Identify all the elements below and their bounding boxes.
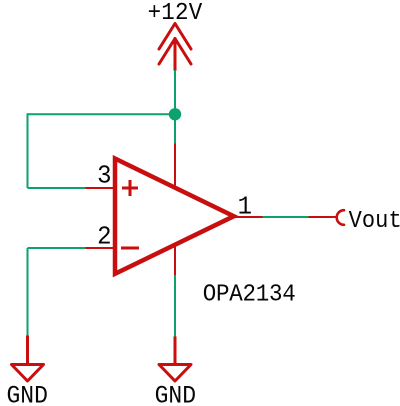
svg-text:2: 2 [97, 223, 111, 252]
wire to pin 3 [28, 187, 86, 189]
label +12V [148, 0, 203, 27]
wire opamp bottom to ground [174, 275, 176, 337]
plus marker non-inverting input [122, 180, 138, 196]
junction [169, 108, 181, 120]
svg-text:GND: GND [155, 383, 196, 406]
wire +12V rail vertical [174, 70, 176, 144]
net label Vout lead [309, 216, 338, 218]
pin number 2 [97, 223, 111, 252]
pin number 3 [97, 162, 111, 191]
wire output [263, 216, 309, 218]
wire left down to ground [27, 248, 29, 336]
wire pin 2 to left [28, 247, 86, 249]
pin number 1 [238, 193, 252, 222]
wire junction to left [28, 113, 176, 115]
label GND center [155, 383, 196, 406]
value label OPA2134 [203, 282, 296, 309]
svg-text:3: 3 [97, 162, 111, 191]
pin 1 output [234, 216, 263, 218]
pin V- bottom [174, 244, 176, 275]
net label Vout arc [337, 210, 344, 225]
op-amp U1 body [115, 159, 234, 274]
pin 3 [86, 187, 115, 189]
svg-text:GND: GND [7, 383, 48, 406]
pin V+ top [174, 144, 176, 190]
pin 2 [86, 247, 115, 249]
net label Vout text [349, 207, 400, 234]
svg-text:OPA2134: OPA2134 [203, 282, 296, 309]
minus marker inverting input [121, 247, 139, 250]
svg-text:+12V: +12V [148, 0, 203, 27]
ground symbol center [159, 337, 191, 382]
svg-text:1: 1 [238, 193, 252, 222]
wire left vertical down [27, 113, 29, 188]
svg-text:Vout: Vout [349, 207, 400, 234]
label GND left [7, 383, 48, 406]
ground symbol left [12, 336, 44, 382]
power symbol +12V [159, 24, 191, 71]
